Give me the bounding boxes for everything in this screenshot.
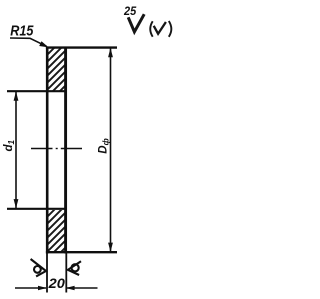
svg-text:20: 20	[48, 276, 66, 291]
svg-text:25: 25	[123, 6, 137, 18]
